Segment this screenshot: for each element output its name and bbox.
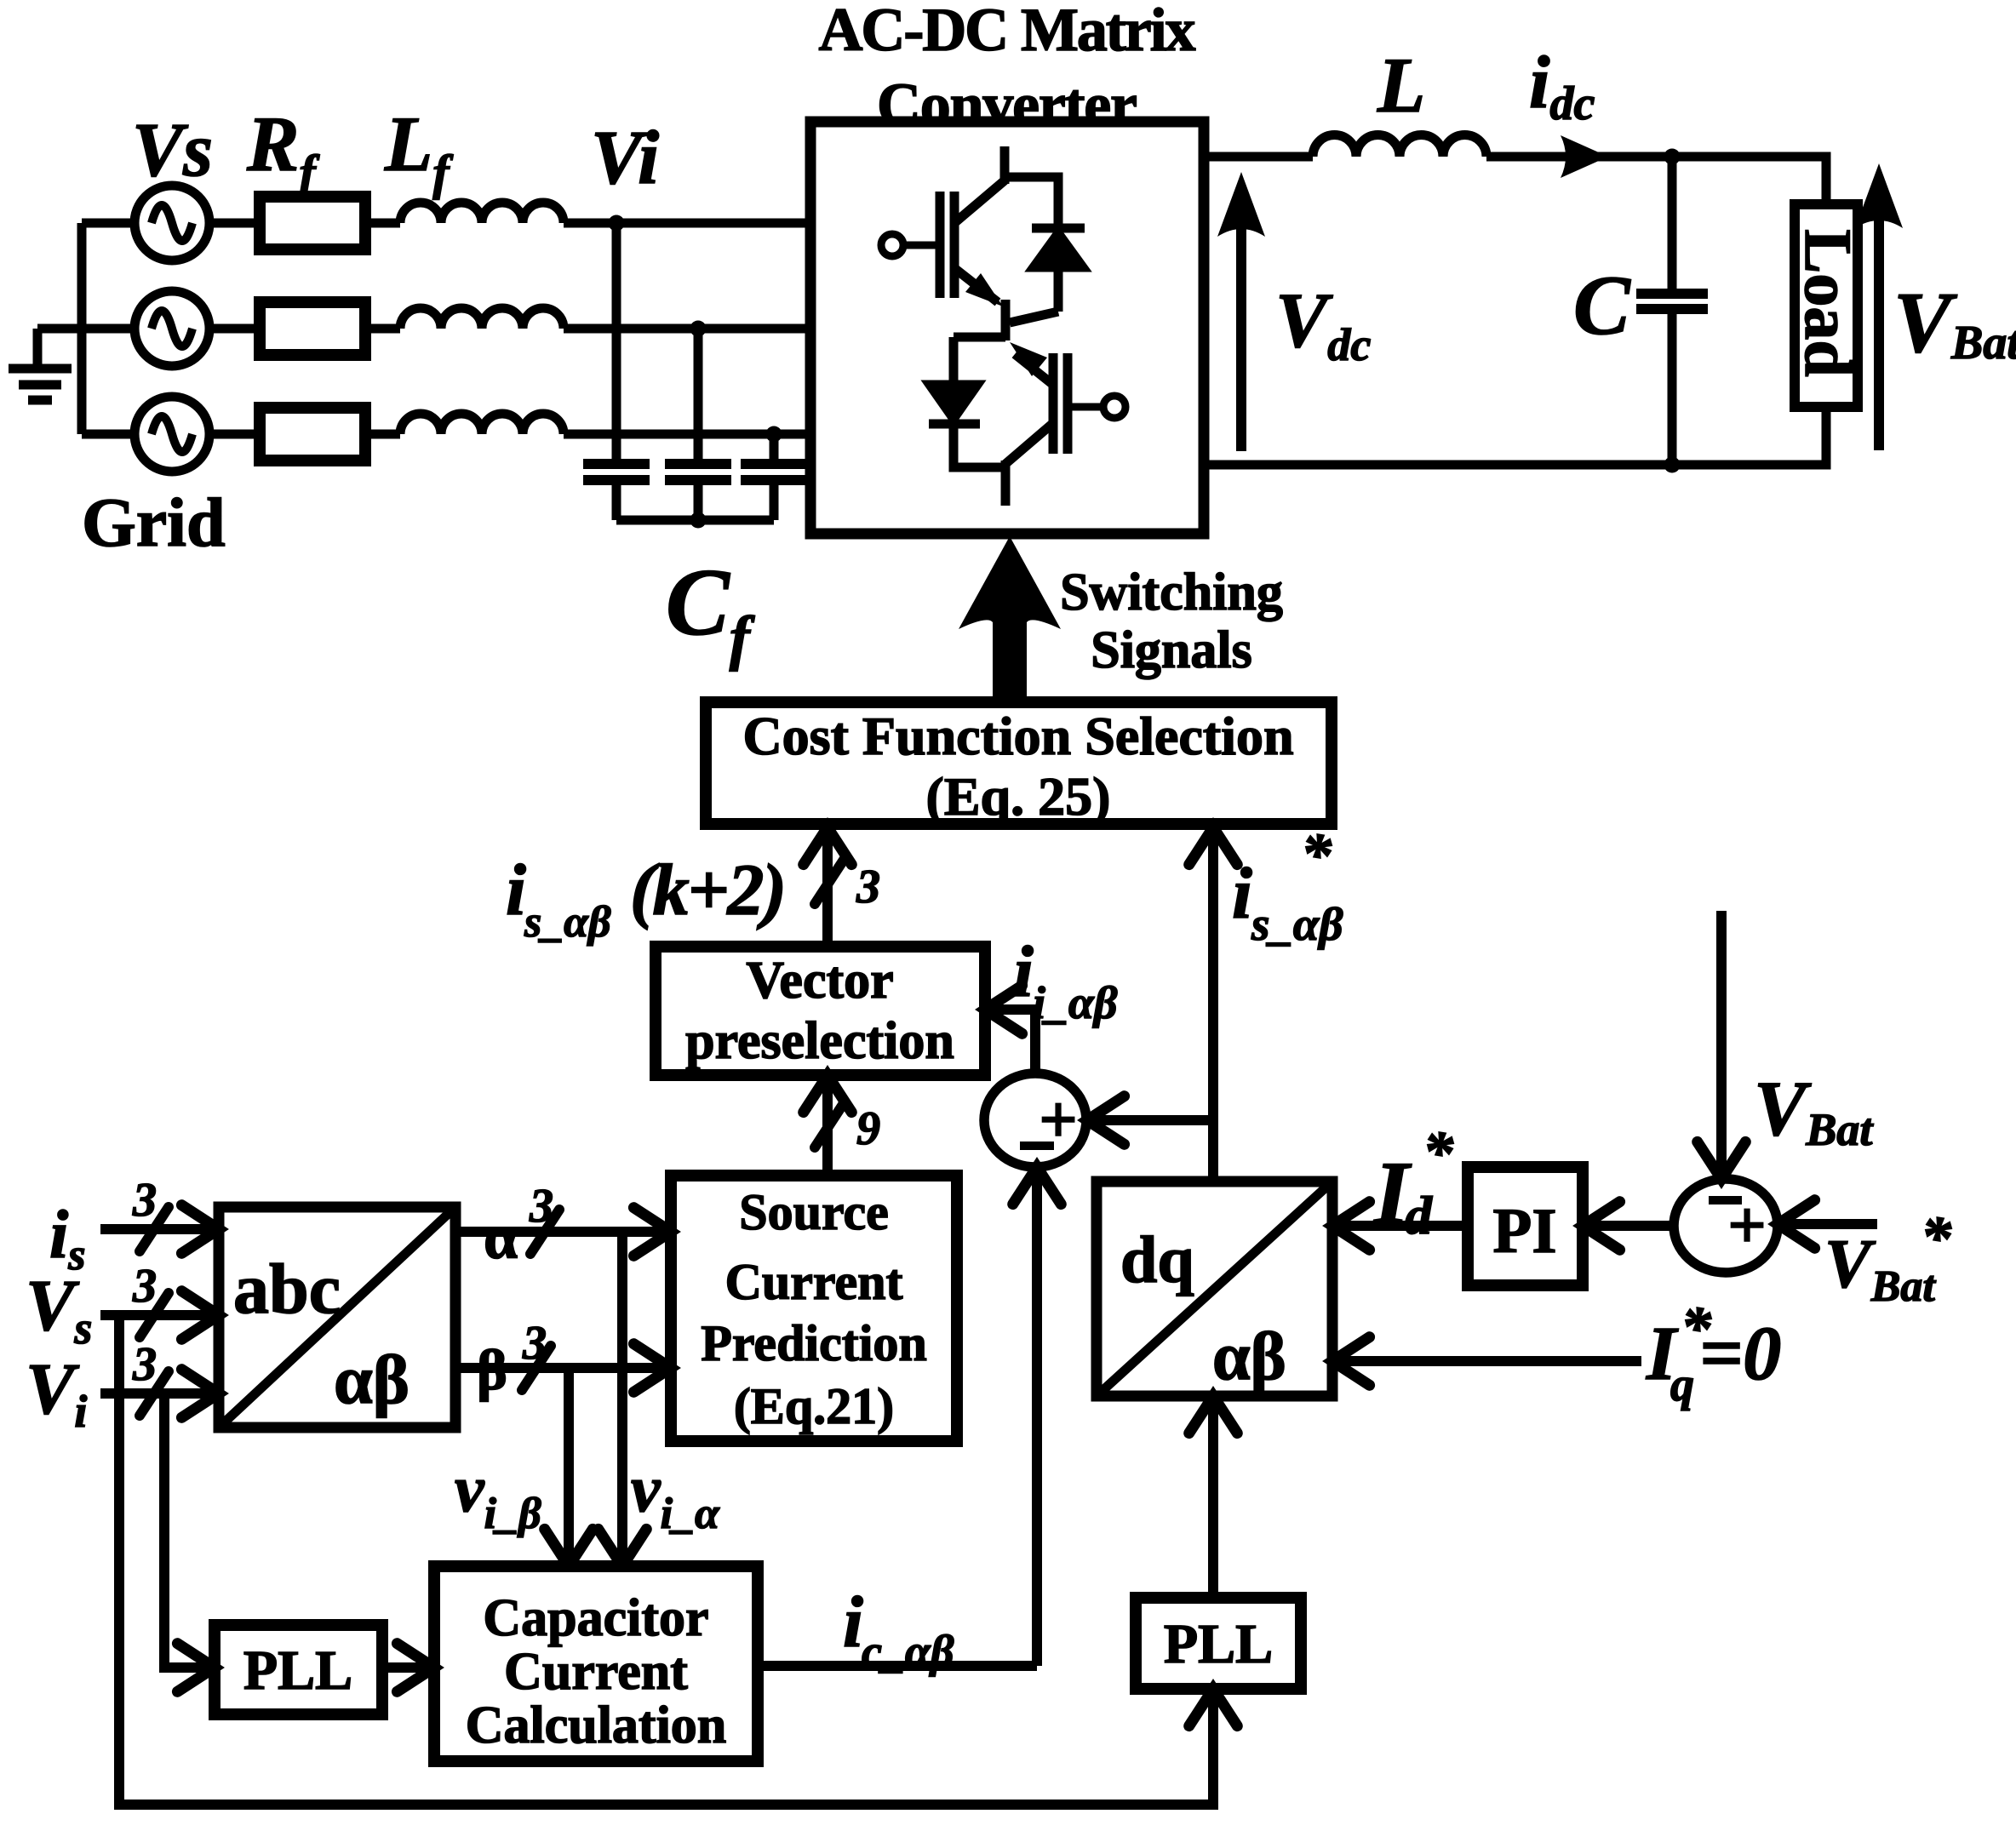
label Rf (246, 100, 320, 200)
arrowhead into vector (804, 1075, 852, 1113)
label AC-DC Matrix Converter (819, 0, 1196, 139)
IGBT Q1 collector (954, 146, 1005, 223)
label VBat (1754, 1065, 1874, 1155)
AC source Vs phase c (135, 397, 209, 472)
label Vi (591, 116, 659, 200)
node Vi (609, 215, 625, 232)
label ii_ab (1013, 930, 1118, 1028)
wire dc bottom (1204, 407, 1826, 465)
arrowhead S1 right (1087, 1096, 1125, 1145)
wire dc top (1204, 152, 1313, 162)
resistor Rf phase c (260, 408, 365, 461)
block PLL2 (1136, 1598, 1301, 1689)
IGBT Q1 gate terminal (881, 234, 936, 256)
wire source stub phase b (82, 324, 135, 334)
wire is input (100, 1224, 219, 1234)
wire Q1 to D1 (1005, 177, 1058, 225)
arrowhead S1 bottom (1013, 1167, 1062, 1204)
slash 9 (815, 1103, 844, 1147)
label is input (49, 1198, 85, 1279)
svg-text:(Eq.21): (Eq.21) (734, 1378, 894, 1434)
wire Vs input (100, 1310, 219, 1320)
IGBT Q2 gate terminal (1071, 396, 1125, 418)
label 3 alpha (529, 1180, 553, 1233)
wire PLL2 to dq (1208, 1396, 1218, 1598)
wire S1 out to vector (990, 1010, 1035, 1073)
svg-text:PLL: PLL (243, 1639, 352, 1702)
svg-text:dq: dq (1120, 1222, 1194, 1296)
wire cap bottom lead 2 (694, 484, 703, 520)
svg-text:C: C (1573, 258, 1631, 352)
label ic_ab (843, 1581, 954, 1677)
svg-text:Cost Function Selection: Cost Function Selection (742, 706, 1293, 766)
wire D1 to node M (1010, 312, 1058, 323)
label 9 (856, 1102, 880, 1155)
block dq-ab transform (1097, 1182, 1332, 1396)
svg-text:L: L (1377, 42, 1425, 129)
arrowhead Vs into abc (181, 1291, 219, 1340)
arrowhead Id into dq (1332, 1202, 1370, 1250)
arrowhead into PLL2 (1189, 1689, 1238, 1726)
wire C lead top (1668, 157, 1677, 289)
label Vs input (26, 1264, 92, 1353)
wire ic out (758, 1661, 1037, 1671)
label is_ab ref (1232, 821, 1343, 950)
label Vdc (1275, 277, 1371, 370)
label L (1377, 42, 1425, 129)
label 3 is (132, 1174, 157, 1227)
svg-text:β: β (477, 1337, 507, 1402)
svg-text:3: 3 (132, 1338, 157, 1391)
svg-text:3: 3 (132, 1174, 157, 1227)
svg-text:i: i (843, 1581, 863, 1662)
wire Vi row a (564, 219, 810, 228)
slash 3 Vi (140, 1371, 169, 1416)
svg-text:Prediction: Prediction (701, 1315, 927, 1371)
block Vector preselection (656, 947, 985, 1075)
wire row c (564, 430, 810, 439)
label 3 beta (522, 1317, 547, 1370)
arrowhead beta into source (633, 1344, 671, 1393)
svg-text:Source: Source (739, 1184, 889, 1240)
arrowhead is into abc (181, 1205, 219, 1254)
svg-text:i: i (1013, 930, 1034, 1012)
svg-text:AC-DC Matrix: AC-DC Matrix (819, 0, 1196, 64)
block PI (1468, 1167, 1583, 1285)
block abc-ab transform (219, 1207, 455, 1428)
svg-text:Signals: Signals (1091, 621, 1252, 679)
wire Id line (1332, 1221, 1468, 1231)
summing junction S2 (1674, 1179, 1778, 1273)
wire 9 pred (822, 1075, 833, 1176)
AC source Vs phase a (135, 186, 209, 260)
arrowhead PLL2 into dq (1189, 1396, 1238, 1433)
label idc (1529, 42, 1595, 130)
slash 3 beta (522, 1346, 551, 1390)
wire source stub phase a (82, 219, 135, 228)
svg-text:i: i (1232, 852, 1252, 934)
node row b (690, 321, 707, 337)
arrowhead VBat into S2 (1698, 1142, 1746, 1179)
block Cost Function Selection (706, 702, 1332, 827)
label Lf (384, 100, 454, 200)
svg-text:*: * (1423, 1119, 1454, 1187)
svg-text:s_αβ: s_αβ (1251, 898, 1343, 950)
svg-text:3: 3 (132, 1260, 157, 1313)
svg-text:Calculation: Calculation (466, 1697, 727, 1754)
wire PLL1 to capcalc (382, 1662, 434, 1673)
arrow VBat load (1855, 163, 1903, 450)
resistor Rf phase b (260, 302, 365, 355)
wire row b (564, 324, 810, 334)
wire VBat input (1716, 911, 1727, 1175)
wire cap lead 2 (694, 329, 703, 460)
svg-text:*: * (1921, 1204, 1952, 1272)
block Source Current Prediction (671, 1176, 957, 1441)
label Vs (132, 108, 213, 192)
label VBat load (1893, 275, 2016, 371)
converter box (810, 122, 1204, 534)
wire S1 bottom input (1032, 1172, 1042, 1666)
svg-text:PLL: PLL (1164, 1613, 1273, 1675)
wire cap bottom lead 1 (612, 484, 621, 520)
wire D2 to node M (954, 333, 1005, 342)
wire cap lead 3 (770, 434, 779, 460)
capacitor C (1636, 294, 1708, 309)
arrowhead into cost left (804, 827, 852, 865)
label is_ab(k+2) (506, 849, 787, 947)
wire source to resistor phase a (209, 219, 260, 228)
arrowhead Vi into abc (181, 1370, 219, 1418)
block Capacitor Current Calculation (434, 1566, 758, 1761)
wire cap star bus (616, 516, 774, 525)
capacitor Cf1 (583, 464, 650, 480)
IGBT Q1 gate bars (940, 192, 954, 298)
svg-text:9: 9 (856, 1102, 880, 1155)
svg-text:abc: abc (233, 1250, 341, 1329)
svg-text:c_αβ: c_αβ (862, 1626, 954, 1677)
label 3 Vi (132, 1338, 157, 1391)
arrow Vdc (1217, 172, 1265, 451)
arrowhead ii into vector (985, 986, 1022, 1034)
wire Vi to PLL1 (164, 1393, 215, 1668)
arrowhead alpha into source (633, 1208, 671, 1256)
arrowhead vi_a (598, 1529, 647, 1566)
wire dc top 3 (1672, 157, 1826, 204)
svg-text:Capacitor: Capacitor (483, 1589, 708, 1647)
label Load (1791, 229, 1865, 376)
svg-text:d: d (1405, 1185, 1433, 1245)
wire vi_b drop (564, 1368, 574, 1561)
wire is_ab ref (1208, 827, 1218, 1182)
svg-text:αβ: αβ (334, 1341, 409, 1418)
slash 3 is (140, 1207, 169, 1251)
svg-text:Vs: Vs (132, 108, 213, 192)
wire Q2 to D2 (954, 427, 1005, 467)
svg-text:3: 3 (856, 861, 880, 913)
load box (1795, 204, 1858, 407)
wire VBat ref input (1783, 1219, 1877, 1229)
wire alpha out (455, 1227, 671, 1237)
wire resistor to inductor phase c (365, 430, 400, 439)
wire C lead bottom (1668, 313, 1677, 465)
slash 3 pred (815, 860, 844, 904)
node cap bus (690, 512, 707, 529)
resistor Rf phase a (260, 197, 365, 249)
svg-text:q: q (1670, 1359, 1694, 1411)
node row c (766, 426, 782, 443)
IGBT Q2 collector (1005, 423, 1053, 506)
label vi_b (455, 1451, 541, 1538)
svg-text:Converter: Converter (877, 71, 1137, 139)
AC source Vs phase b (135, 291, 209, 366)
label Id ref (1372, 1119, 1454, 1245)
summing junction S1 (984, 1073, 1086, 1167)
diode D2 (929, 337, 980, 424)
slash 3 alpha (530, 1210, 559, 1254)
arrow switching signals (959, 536, 1061, 704)
label Vi input (26, 1348, 87, 1437)
node M link (1001, 300, 1011, 340)
arrowhead VBat ref into S2 (1778, 1200, 1815, 1249)
svg-text:Switching: Switching (1060, 564, 1283, 621)
IGBT Q2 emitter (1010, 342, 1053, 385)
wire vi_a drop (617, 1232, 627, 1561)
inductor Lf phase b (400, 308, 564, 329)
arrowhead into cost right (1189, 827, 1238, 865)
svg-text:α: α (484, 1204, 518, 1272)
label C (1573, 258, 1631, 352)
svg-text:Grid: Grid (82, 483, 226, 561)
wire grid left bus (77, 223, 87, 434)
svg-text:preselection: preselection (685, 1012, 954, 1070)
wire dc top 2 (1486, 152, 1672, 162)
diode D1 (1032, 228, 1085, 312)
inductor L (1313, 135, 1486, 157)
label beta (477, 1337, 507, 1402)
wire cap lead 1 (612, 223, 621, 460)
IGBT Q1 emitter (954, 268, 1003, 306)
label 3 Vs (132, 1260, 157, 1313)
wire source stub phase c (82, 430, 135, 439)
arrowhead vi_b (545, 1529, 593, 1566)
label 3 pred (856, 861, 880, 913)
wire resistor to inductor phase a (365, 219, 400, 228)
arrowhead PLL1 out (397, 1644, 434, 1692)
arrowhead into PLL1 (177, 1644, 215, 1692)
arrowhead Iq into dq (1332, 1337, 1370, 1386)
node dc top C (1664, 149, 1681, 165)
svg-text:(k+2): (k+2) (630, 849, 787, 930)
svg-text:(Eq. 25): (Eq. 25) (926, 766, 1111, 827)
svg-text:3: 3 (522, 1317, 547, 1370)
wire is_ab(k+2) (822, 827, 833, 947)
inductor Lf phase a (400, 203, 564, 223)
svg-text:*: * (1301, 821, 1332, 889)
wire resistor to inductor phase b (365, 324, 400, 334)
svg-text:αβ: αβ (1212, 1319, 1286, 1394)
svg-text:s_αβ: s_αβ (524, 898, 611, 947)
label Grid (82, 483, 226, 561)
label vi_a (631, 1451, 720, 1538)
wire Vi input (100, 1388, 219, 1399)
label alpha (484, 1204, 518, 1272)
arrow idc (1561, 135, 1608, 178)
svg-text:PI: PI (1493, 1196, 1557, 1267)
capacitor Cf3 (741, 464, 807, 480)
wire Iq line (1332, 1356, 1641, 1366)
svg-text:=0: =0 (1699, 1312, 1781, 1396)
wire S1 right input (1092, 1115, 1213, 1125)
svg-text:Vi: Vi (591, 116, 659, 200)
wire cap bottom lead 3 (770, 484, 779, 520)
inductor Lf phase c (400, 414, 564, 434)
label VBat ref (1824, 1204, 1952, 1311)
wire source to resistor phase c (209, 430, 260, 439)
wire Vs feedback (119, 1315, 1213, 1805)
svg-text:Vector: Vector (746, 952, 893, 1010)
svg-text:i: i (506, 849, 526, 930)
svg-text:Current: Current (725, 1254, 903, 1310)
capacitor Cf2 (665, 464, 731, 480)
ground (9, 329, 82, 400)
node dc bottom C (1664, 457, 1681, 473)
wire S2 to PI (1583, 1221, 1674, 1231)
label Cf (666, 550, 755, 672)
wire source to resistor phase b (209, 324, 260, 334)
svg-text:i_αβ: i_αβ (1033, 977, 1118, 1028)
arrowhead into PI (1583, 1202, 1620, 1250)
label Switching Signals (1060, 564, 1283, 679)
label Iq ref (1646, 1294, 1781, 1411)
svg-text:3: 3 (529, 1180, 553, 1233)
svg-text:Current: Current (504, 1643, 688, 1701)
slash 3 Vs (140, 1293, 169, 1337)
svg-text:Load: Load (1791, 229, 1865, 376)
IGBT Q2 gate bars (1053, 353, 1068, 454)
wire beta out (455, 1363, 671, 1373)
block PLL1 (215, 1625, 382, 1714)
svg-text:+: + (1727, 1188, 1767, 1263)
svg-text:*: * (1681, 1294, 1712, 1362)
